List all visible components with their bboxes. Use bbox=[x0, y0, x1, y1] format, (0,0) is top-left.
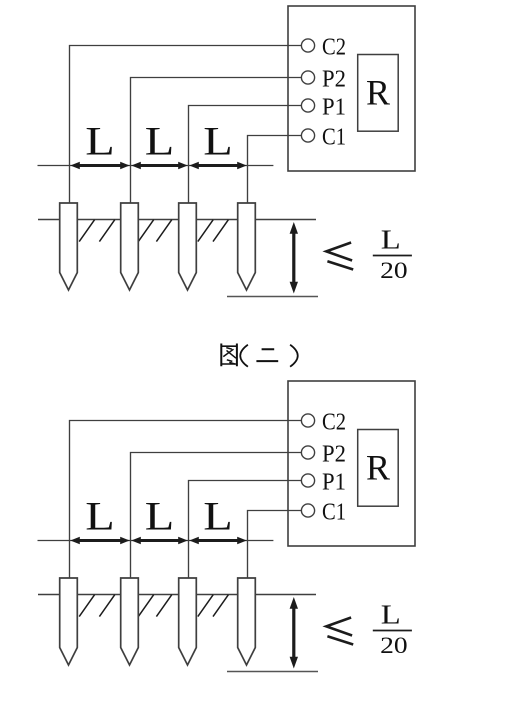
instrument box (earth tester) B bbox=[288, 381, 415, 546]
ground hatch 4B bbox=[156, 595, 171, 617]
terminal P1B circle bbox=[301, 474, 314, 487]
depth reference line A bbox=[227, 296, 318, 298]
resistor box RB bbox=[358, 430, 399, 507]
wire P2A terminal to electrode 2 bbox=[131, 78, 302, 204]
depth double arrow B bbox=[292, 608, 295, 659]
ground hatch 2A bbox=[99, 220, 114, 242]
electrode rod 3A bbox=[179, 203, 197, 290]
caption left parenthesis bbox=[240, 345, 248, 367]
svg-text:C1: C1 bbox=[322, 124, 346, 151]
ground hatch 5B bbox=[198, 595, 213, 617]
dimension double arrow L 2A bbox=[139, 164, 180, 167]
less-or-equal symbol B bbox=[326, 618, 353, 645]
svg-text:L: L bbox=[145, 119, 175, 164]
svg-text:L: L bbox=[145, 494, 175, 539]
terminal P2B circle bbox=[301, 446, 314, 459]
terminal P1A circle bbox=[301, 99, 314, 112]
dimension double arrow L 2B bbox=[139, 539, 180, 542]
electrode rod 2A bbox=[121, 203, 139, 290]
electrode rod 1B bbox=[60, 578, 78, 665]
svg-text:20: 20 bbox=[380, 633, 408, 659]
depth double arrow A bbox=[292, 233, 295, 284]
instrument box (earth tester) A bbox=[288, 6, 415, 171]
depth reference line B bbox=[227, 671, 318, 673]
svg-text:P1: P1 bbox=[322, 94, 346, 121]
svg-text:20: 20 bbox=[380, 258, 408, 284]
svg-text:L: L bbox=[381, 224, 401, 255]
ground hatch 3A bbox=[138, 220, 153, 242]
ground hatch 1A bbox=[79, 220, 94, 242]
fraction bar A bbox=[373, 255, 412, 257]
svg-text:L: L bbox=[203, 494, 233, 539]
measurement line B bbox=[38, 540, 274, 542]
svg-text:P2: P2 bbox=[322, 66, 346, 93]
terminal C1B circle bbox=[301, 504, 314, 517]
wire P1B terminal to electrode 3 bbox=[189, 481, 302, 579]
ground surface line A bbox=[38, 219, 316, 221]
svg-text:L: L bbox=[203, 119, 233, 164]
dimension double arrow L 3A bbox=[197, 164, 239, 167]
caption right parenthesis bbox=[290, 345, 298, 367]
terminal P2A circle bbox=[301, 71, 314, 84]
ground hatch 1B bbox=[79, 595, 94, 617]
svg-text:C1: C1 bbox=[322, 499, 346, 526]
svg-text:R: R bbox=[366, 72, 390, 112]
ground hatch 5A bbox=[198, 220, 213, 242]
svg-text:L: L bbox=[85, 119, 115, 164]
fraction bar B bbox=[373, 630, 412, 632]
ground hatch 2B bbox=[99, 595, 114, 617]
terminal C1A circle bbox=[301, 129, 314, 142]
svg-text:C2: C2 bbox=[322, 34, 346, 61]
ground surface line B bbox=[38, 594, 316, 596]
wire C2B terminal to electrode 1 bbox=[70, 421, 302, 579]
electrode rod 1A bbox=[60, 203, 78, 290]
wire C1A terminal to electrode 4 bbox=[248, 136, 302, 204]
wire P2B terminal to electrode 2 bbox=[131, 453, 302, 579]
ground hatch 3B bbox=[138, 595, 153, 617]
terminal C2A circle bbox=[301, 39, 314, 52]
dimension double arrow L 3B bbox=[197, 539, 239, 542]
svg-text:R: R bbox=[366, 447, 390, 487]
svg-text:P2: P2 bbox=[322, 441, 346, 468]
wire C2A terminal to electrode 1 bbox=[70, 46, 302, 204]
measurement line A bbox=[38, 165, 274, 167]
svg-text:P1: P1 bbox=[322, 469, 346, 496]
ground hatch 6B bbox=[213, 595, 228, 617]
svg-text:L: L bbox=[381, 599, 401, 630]
dimension double arrow L 1A bbox=[78, 164, 122, 167]
caption character TU (figure) bbox=[221, 344, 237, 367]
caption character ER (two) bbox=[256, 349, 278, 361]
ground hatch 4A bbox=[156, 220, 171, 242]
terminal C2B circle bbox=[301, 414, 314, 427]
dimension double arrow L 1B bbox=[78, 539, 122, 542]
svg-text:C2: C2 bbox=[322, 409, 346, 436]
wire C1B terminal to electrode 4 bbox=[248, 511, 302, 579]
electrode rod 4A bbox=[238, 203, 256, 290]
less-or-equal symbol A bbox=[326, 243, 353, 270]
electrode rod 4B bbox=[238, 578, 256, 665]
electrode rod 2B bbox=[121, 578, 139, 665]
electrode rod 3B bbox=[179, 578, 197, 665]
wire P1A terminal to electrode 3 bbox=[189, 106, 302, 204]
resistor box RA bbox=[358, 55, 399, 132]
ground hatch 6A bbox=[213, 220, 228, 242]
svg-text:L: L bbox=[85, 494, 115, 539]
